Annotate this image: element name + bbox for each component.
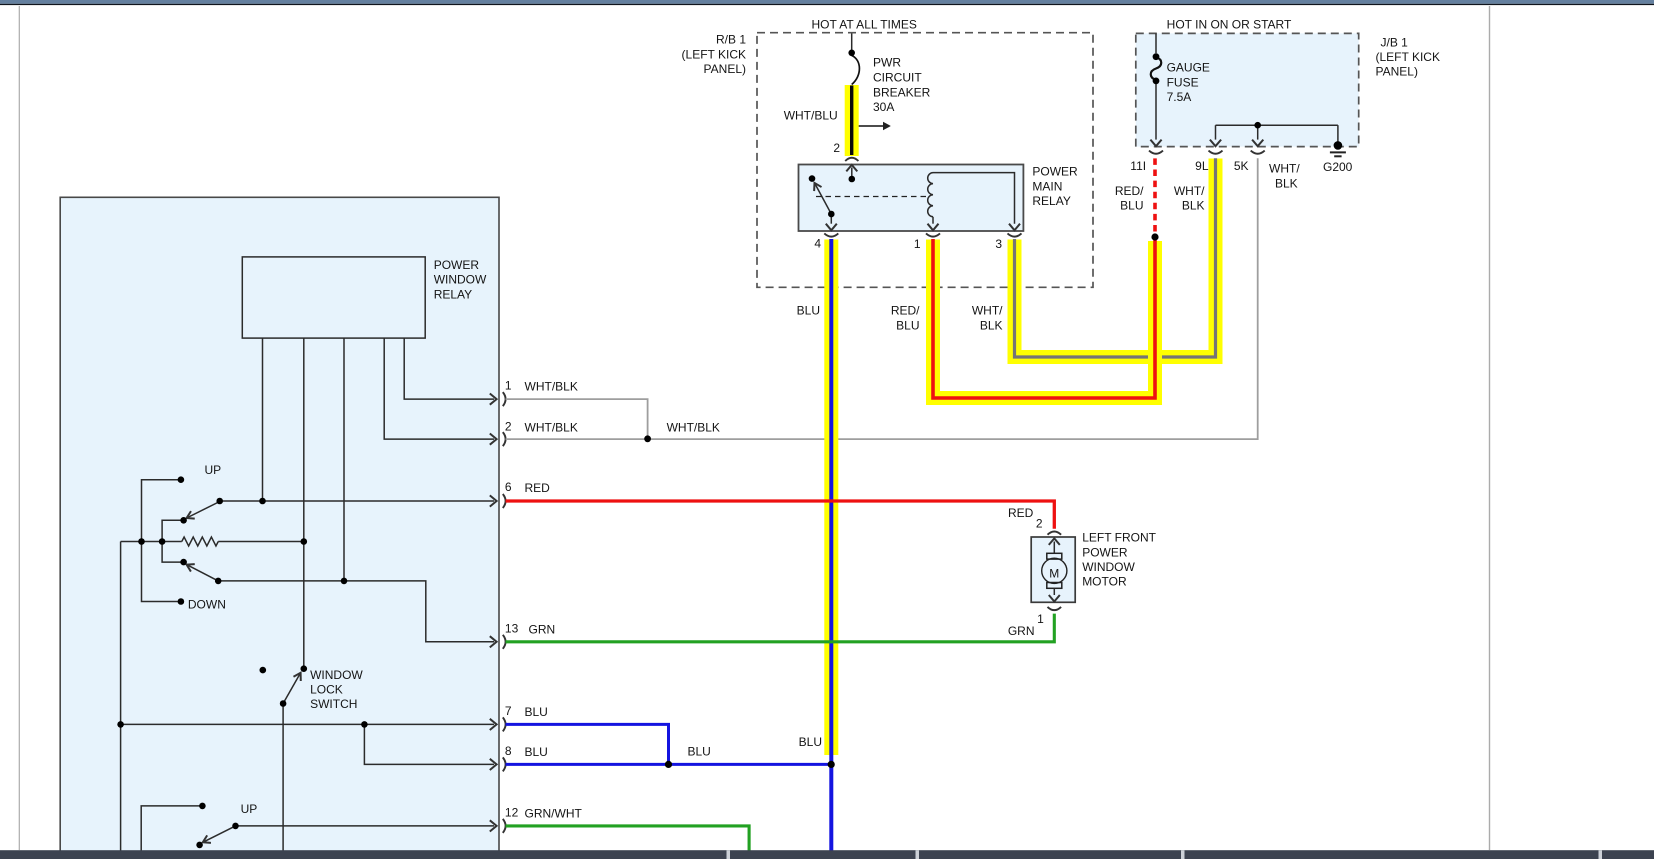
wire resistor to relay leg B [218,541,304,543]
wire BLU pin 7 [506,724,669,764]
node: breaker top [848,50,855,57]
svg-text:5K: 5K [1234,159,1249,173]
node: SW1 up pivot [216,498,223,505]
resistor R1 [182,537,218,546]
svg-text:FUSE: FUSE [1167,75,1199,89]
pin 8 connector [490,759,497,770]
svg-text:BLU: BLU [525,705,548,719]
svg-text:DOWN: DOWN [188,598,226,612]
svg-text:PANEL): PANEL) [704,62,746,76]
wire bus to 5K [1257,125,1259,139]
svg-text:BREAKER: BREAKER [873,85,931,99]
svg-text:MAIN: MAIN [1032,179,1062,193]
relay K1 coil [928,173,933,217]
node: relay lever pivot [828,211,835,218]
node: relay pin2 contact [849,176,856,183]
wire relay leg E to pin 1 [404,338,494,399]
svg-text:1: 1 [914,237,921,251]
wire WHT/BLK pin 3 to 9L highlight [1015,159,1216,358]
svg-text:7.5A: 7.5A [1167,90,1192,104]
svg-text:WINDOW: WINDOW [434,273,487,287]
svg-text:M: M [1049,567,1059,581]
pin 9L connector cup [1209,151,1223,154]
svg-text:UP: UP [205,463,222,477]
circuit breaker CB1 [852,56,860,156]
wire BLU pin 4 core [829,239,833,851]
svg-text:RED/: RED/ [1115,184,1144,198]
ground G200 [1330,141,1346,156]
node: DOWN contact [178,598,185,605]
svg-text:MOTOR: MOTOR [1082,575,1127,589]
svg-text:R/B 1: R/B 1 [716,33,746,47]
svg-text:2: 2 [1036,517,1043,531]
svg-text:BLU: BLU [1120,199,1143,213]
node: BLU splice left [665,761,672,768]
wire SW3 up contact [141,806,202,851]
pin 11I connector cup [1149,151,1163,154]
svg-text:HOT AT ALL TIMES: HOT AT ALL TIMES [812,18,917,32]
pin 6 connector [490,495,497,506]
pin 1 connector cup [926,233,940,236]
junction block J/B 1 dashed box [1136,33,1359,146]
svg-text:7: 7 [505,704,512,718]
wire relay leg D to pin 2 [384,338,494,439]
svg-text:8: 8 [505,744,512,758]
wire window lock to bottom [282,704,284,852]
wire contact link [162,520,184,562]
svg-text:BLU: BLU [525,745,548,759]
svg-text:POWER: POWER [1082,545,1128,559]
svg-text:BLK: BLK [1182,199,1205,213]
svg-text:BLK: BLK [980,318,1003,332]
svg-text:(LEFT KICK: (LEFT KICK [682,47,746,61]
switch SW3 up lever (passenger) [203,826,236,842]
svg-text:9L: 9L [1195,159,1209,173]
svg-text:BLK: BLK [1275,176,1298,190]
wire relay leg C [343,338,345,581]
wire pin 2 entry arrow [851,168,853,180]
relay K1 POWER MAIN RELAY [799,165,1024,232]
wire RED/BLU dashed segment (11I) [1153,158,1157,233]
node: SW3 throw [196,842,203,849]
pin 7 connector [490,719,497,730]
node: window lock top contact [301,665,308,672]
node: fuse top [1153,53,1160,60]
svg-text:RED: RED [525,481,551,495]
svg-text:3: 3 [995,237,1002,251]
svg-text:GAUGE: GAUGE [1167,60,1210,74]
svg-text:2: 2 [833,141,840,155]
svg-text:HOT IN ON OR START: HOT IN ON OR START [1167,18,1292,32]
svg-text:RED: RED [1008,506,1034,520]
wire pin 13 lead [218,581,494,642]
node: SW3 pivot [232,823,239,830]
switch SW1 up lever [187,502,220,519]
svg-text:11I: 11I [1130,159,1146,173]
svg-text:BLU: BLU [688,745,711,759]
svg-text:WHT/BLK: WHT/BLK [667,421,720,435]
svg-text:1: 1 [1037,612,1044,626]
wire BLU pin 8 [506,763,832,766]
wire pin 6 lead [220,500,494,502]
wire contact to pin 4 [830,214,832,224]
motor M1 pin 1 connector cup [1048,607,1062,610]
pin 12 connector [490,820,497,831]
motor M1 pin 2 connector cup [1048,531,1062,534]
svg-text:WHT/BLK: WHT/BLK [525,421,578,435]
wire GRN pin 13 to motor pin 1 [506,614,1055,642]
circuit breaker CB1 yellow highlight [845,85,859,156]
wire coil top to pin 3 [933,173,1015,224]
svg-text:(LEFT KICK: (LEFT KICK [1376,50,1440,64]
svg-text:1: 1 [505,379,512,393]
relay U1 POWER WINDOW RELAY [242,257,425,338]
svg-text:GRN: GRN [529,622,556,636]
node: pin8 branch junction [361,721,368,728]
switch SW2 window lock lever [283,673,301,704]
wire BLU pin 4 highlight [824,240,838,756]
node: relay fixed contact [809,175,816,182]
node: BLU splice main [828,761,835,768]
wire GRN/WHT pin 12 [506,826,749,851]
pin 1 connector [490,394,497,405]
node: pin13 leg junction [341,578,348,585]
wire pin 12 lead [236,825,495,827]
svg-text:2: 2 [505,420,512,434]
pin 2 connector cup [845,158,858,161]
wire J/B internal bus [1216,124,1338,126]
svg-text:BLU: BLU [797,304,820,318]
node: WHT/BLK splice [644,435,651,442]
svg-text:J/B 1: J/B 1 [1381,35,1409,49]
wire resistor feed [121,541,182,543]
BOTTOM_BAR [0,850,1654,859]
node: UP contact [178,476,185,483]
wire pin 7 lead [121,723,494,725]
svg-text:6: 6 [505,480,512,494]
node: SW1 up throw [180,517,187,524]
svg-text:PWR: PWR [873,56,901,70]
fuse F1 GAUGE 7.5A [1150,33,1161,146]
svg-text:12: 12 [505,805,519,819]
node: SW1 down pivot [215,578,222,585]
svg-text:SWITCH: SWITCH [310,697,357,711]
wire bus to ground [1337,125,1339,141]
svg-text:WINDOW: WINDOW [1082,560,1135,574]
svg-text:WHT/: WHT/ [972,304,1003,318]
node: J/B bus junction [1254,122,1261,129]
svg-text:POWER: POWER [1032,165,1078,179]
svg-text:PANEL): PANEL) [1376,65,1418,79]
svg-text:LOCK: LOCK [310,683,343,697]
wire RED/BLU pin 1 to 11I core [933,239,1155,398]
node: resistor relay junction [301,538,308,545]
breaker side arrow [859,122,891,131]
relay box R/B 1 dashed boundary [757,33,1093,288]
node: RED/BLU splice [1151,233,1158,240]
wire bus to 9L [1215,125,1217,139]
wire RED/BLU pin 1 to 11I highlight [933,240,1155,399]
motor M1 LEFT FRONT POWER WINDOW MOTOR [1031,537,1075,602]
svg-text:WHT/BLK: WHT/BLK [525,380,578,394]
node: window lock open contact [260,667,267,674]
svg-text:LEFT FRONT: LEFT FRONT [1082,531,1156,545]
svg-text:BLU: BLU [896,318,919,332]
wire hot feed to breaker [851,34,853,50]
svg-text:RED/: RED/ [891,304,920,318]
svg-text:WHT/BLU: WHT/BLU [784,109,838,123]
wire relay leg B [303,338,305,669]
svg-text:WHT/: WHT/ [1174,184,1205,198]
node: pin7 bus junction [117,721,124,728]
svg-text:WINDOW: WINDOW [310,668,363,682]
wire pin 8 lead [364,724,494,764]
wire relay leg A [262,338,264,501]
svg-text:RELAY: RELAY [434,287,472,301]
wire WHT/BLK pin 1 [506,399,648,439]
svg-text:4: 4 [814,237,821,251]
svg-text:CIRCUIT: CIRCUIT [873,70,922,84]
svg-text:GRN/WHT: GRN/WHT [525,806,583,820]
svg-text:13: 13 [505,621,519,635]
node: resistor contact junction [159,538,166,545]
svg-text:BLU: BLU [799,735,822,749]
node: pin6 leg junction [259,498,266,505]
wire WHT/BLK pin 3 to 9L core [1015,158,1216,357]
node: SW1 down throw [180,559,187,566]
svg-text:WHT/: WHT/ [1269,162,1300,176]
svg-text:30A: 30A [873,100,894,114]
svg-text:GRN: GRN [1008,624,1035,638]
pin 3 connector cup [1008,233,1022,236]
node: fuse bottom [1153,78,1160,85]
svg-text:POWER: POWER [434,258,480,272]
switch SW1 down lever [187,565,219,581]
wire coil bottom to pin 1 [932,217,934,224]
svg-text:G200: G200 [1323,160,1353,174]
power window master switch housing [60,197,499,859]
svg-text:RELAY: RELAY [1032,194,1070,208]
relay K1 contact lever [815,183,832,214]
node: window lock pivot [280,700,287,707]
relay K1 mechanical link (dashed) [816,196,928,198]
pin 4 connector cup [824,233,838,236]
svg-text:UP: UP [241,802,258,816]
wire RED pin 6 to motor pin 2 [506,501,1055,529]
node: SW3 up contact [199,803,206,810]
wire WHT/BLK pin 2 to J/B pin 5K [506,158,1258,439]
pin 13 connector [490,636,497,647]
pin 2 connector [490,434,497,445]
pin 5K connector cup [1251,151,1265,154]
wire UP-DOWN bracket [142,480,181,602]
wire left bus [120,542,122,852]
node: resistor bracket junction [138,538,145,545]
